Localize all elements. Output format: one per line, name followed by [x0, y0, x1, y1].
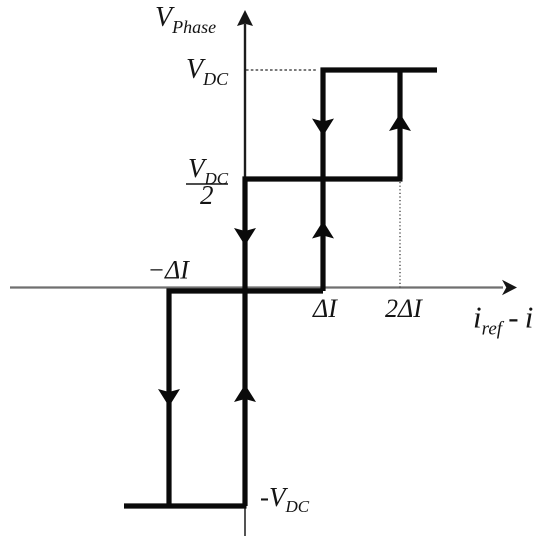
svg-text:−ΔI: −ΔI	[148, 256, 191, 285]
svg-text:VPhase: VPhase	[155, 2, 216, 37]
hysteresis segment: VDC/2 level	[243, 176, 403, 181]
arrow up on zero-crossing transition (lower)	[234, 385, 256, 403]
y-axis lower stub below -VDC level	[244, 506, 246, 536]
svg-text:iref - i: iref - i	[473, 300, 533, 340]
arrow up on delta-I transition (lower)	[312, 221, 334, 239]
hysteresis segment: rising transition at 2-delta-I	[397, 70, 402, 179]
x-axis arrowhead	[502, 280, 517, 295]
y-axis arrowhead	[237, 10, 253, 26]
svg-text:-VDC: -VDC	[260, 482, 310, 516]
svg-text:ΔI: ΔI	[312, 294, 338, 323]
hysteresis segment: zero level	[167, 288, 324, 293]
arrow down on -delta-I transition	[158, 389, 180, 407]
x-axis	[10, 286, 503, 288]
dotted guide line at 2-delta-I	[399, 182, 401, 288]
hysteresis segment: -VDC bottom level	[124, 503, 247, 508]
svg-text:VDC: VDC	[186, 54, 229, 89]
arrow up on 2-delta-I transition	[389, 114, 411, 132]
fraction bar of V_DC/2	[186, 183, 228, 185]
hysteresis segment: transition at delta-I	[320, 68, 325, 292]
arrow down on zero-crossing transition (upper)	[234, 228, 256, 246]
hysteresis segment: transition at zero crossing	[242, 177, 247, 507]
svg-text:2ΔI: 2ΔI	[385, 294, 423, 323]
svg-text:2: 2	[200, 180, 214, 210]
hysteresis segment: VDC top level	[321, 67, 438, 72]
y-axis	[244, 24, 246, 292]
dashed guide line at VDC level	[246, 69, 318, 71]
hysteresis segment: falling transition at -delta-I	[166, 289, 171, 507]
arrow down on delta-I transition (upper)	[312, 119, 334, 137]
